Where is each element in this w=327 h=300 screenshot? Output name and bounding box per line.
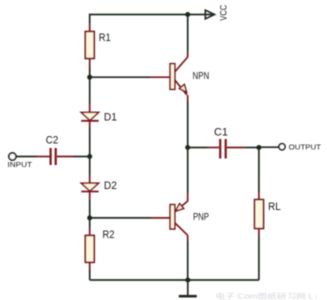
- input terminal: [8, 153, 33, 169]
- wire NPN emitter to node F: [187, 101, 189, 148]
- wire node B to D2: [89, 157, 91, 176]
- node G (output junction): [256, 145, 261, 150]
- wire D2 to node C: [89, 199, 91, 228]
- svg-text:RL: RL: [268, 201, 281, 213]
- diode D1: [81, 105, 117, 129]
- wire node F to PNP emitter: [187, 148, 189, 194]
- wire bottom rail: [90, 279, 259, 281]
- vcc power symbol: [205, 4, 228, 20]
- resistor RL: [255, 192, 281, 236]
- resistor R1: [85, 24, 110, 68]
- ground: [179, 280, 197, 296]
- svg-text:D1: D1: [104, 111, 117, 123]
- node D (ground junction): [185, 278, 190, 283]
- wire R1 to node A: [89, 67, 91, 105]
- wire left rail upper (top to R1): [89, 14, 91, 24]
- wire C1 to node G: [246, 147, 259, 149]
- wire top rail: [90, 14, 214, 16]
- wire PNP collector to node D: [187, 241, 189, 280]
- svg-text:C2: C2: [46, 135, 59, 147]
- svg-text:D2: D2: [104, 180, 117, 192]
- wire D1 to node B: [89, 128, 91, 157]
- wire input to C2: [16, 156, 37, 158]
- resistor R2: [85, 228, 114, 270]
- wire VCC to NPN collector: [187, 15, 189, 52]
- node C (D2/R2/PNP base junction): [87, 215, 92, 220]
- wire PNP base: [90, 217, 170, 219]
- svg-text:R1: R1: [99, 32, 111, 44]
- node F (C1/emitter junction): [185, 145, 190, 150]
- wire R2 to bottom rail: [89, 270, 91, 281]
- transistor Q1 NPN: [170, 52, 209, 102]
- node B (C2/D1/D2 junction): [87, 154, 92, 159]
- svg-text:NPN: NPN: [193, 71, 210, 82]
- capacitor C1: [188, 127, 246, 159]
- svg-text:R2: R2: [103, 229, 115, 241]
- diode D2: [81, 176, 117, 199]
- wire node G to output terminal: [259, 146, 279, 148]
- svg-text:PNP: PNP: [193, 212, 209, 223]
- wire RL to bottom rail: [258, 236, 260, 280]
- wire C2 to node B: [73, 156, 90, 158]
- transistor Q2 PNP: [170, 194, 209, 242]
- node E (VCC junction): [185, 12, 190, 17]
- wire NPN base: [90, 76, 170, 78]
- node A (R1/D1/NPN base junction): [87, 75, 92, 80]
- capacitor C2: [37, 135, 73, 166]
- svg-text:电子 Com图纸研习网 L↓: 电子 Com图纸研习网 L↓: [216, 292, 319, 300]
- wire node G to RL: [258, 148, 260, 193]
- svg-text:OUTPUT: OUTPUT: [289, 142, 322, 151]
- output terminal: [279, 142, 322, 151]
- svg-text:VCC: VCC: [219, 4, 229, 20]
- svg-text:C1: C1: [214, 127, 228, 139]
- svg-text:INPUT: INPUT: [8, 160, 33, 169]
